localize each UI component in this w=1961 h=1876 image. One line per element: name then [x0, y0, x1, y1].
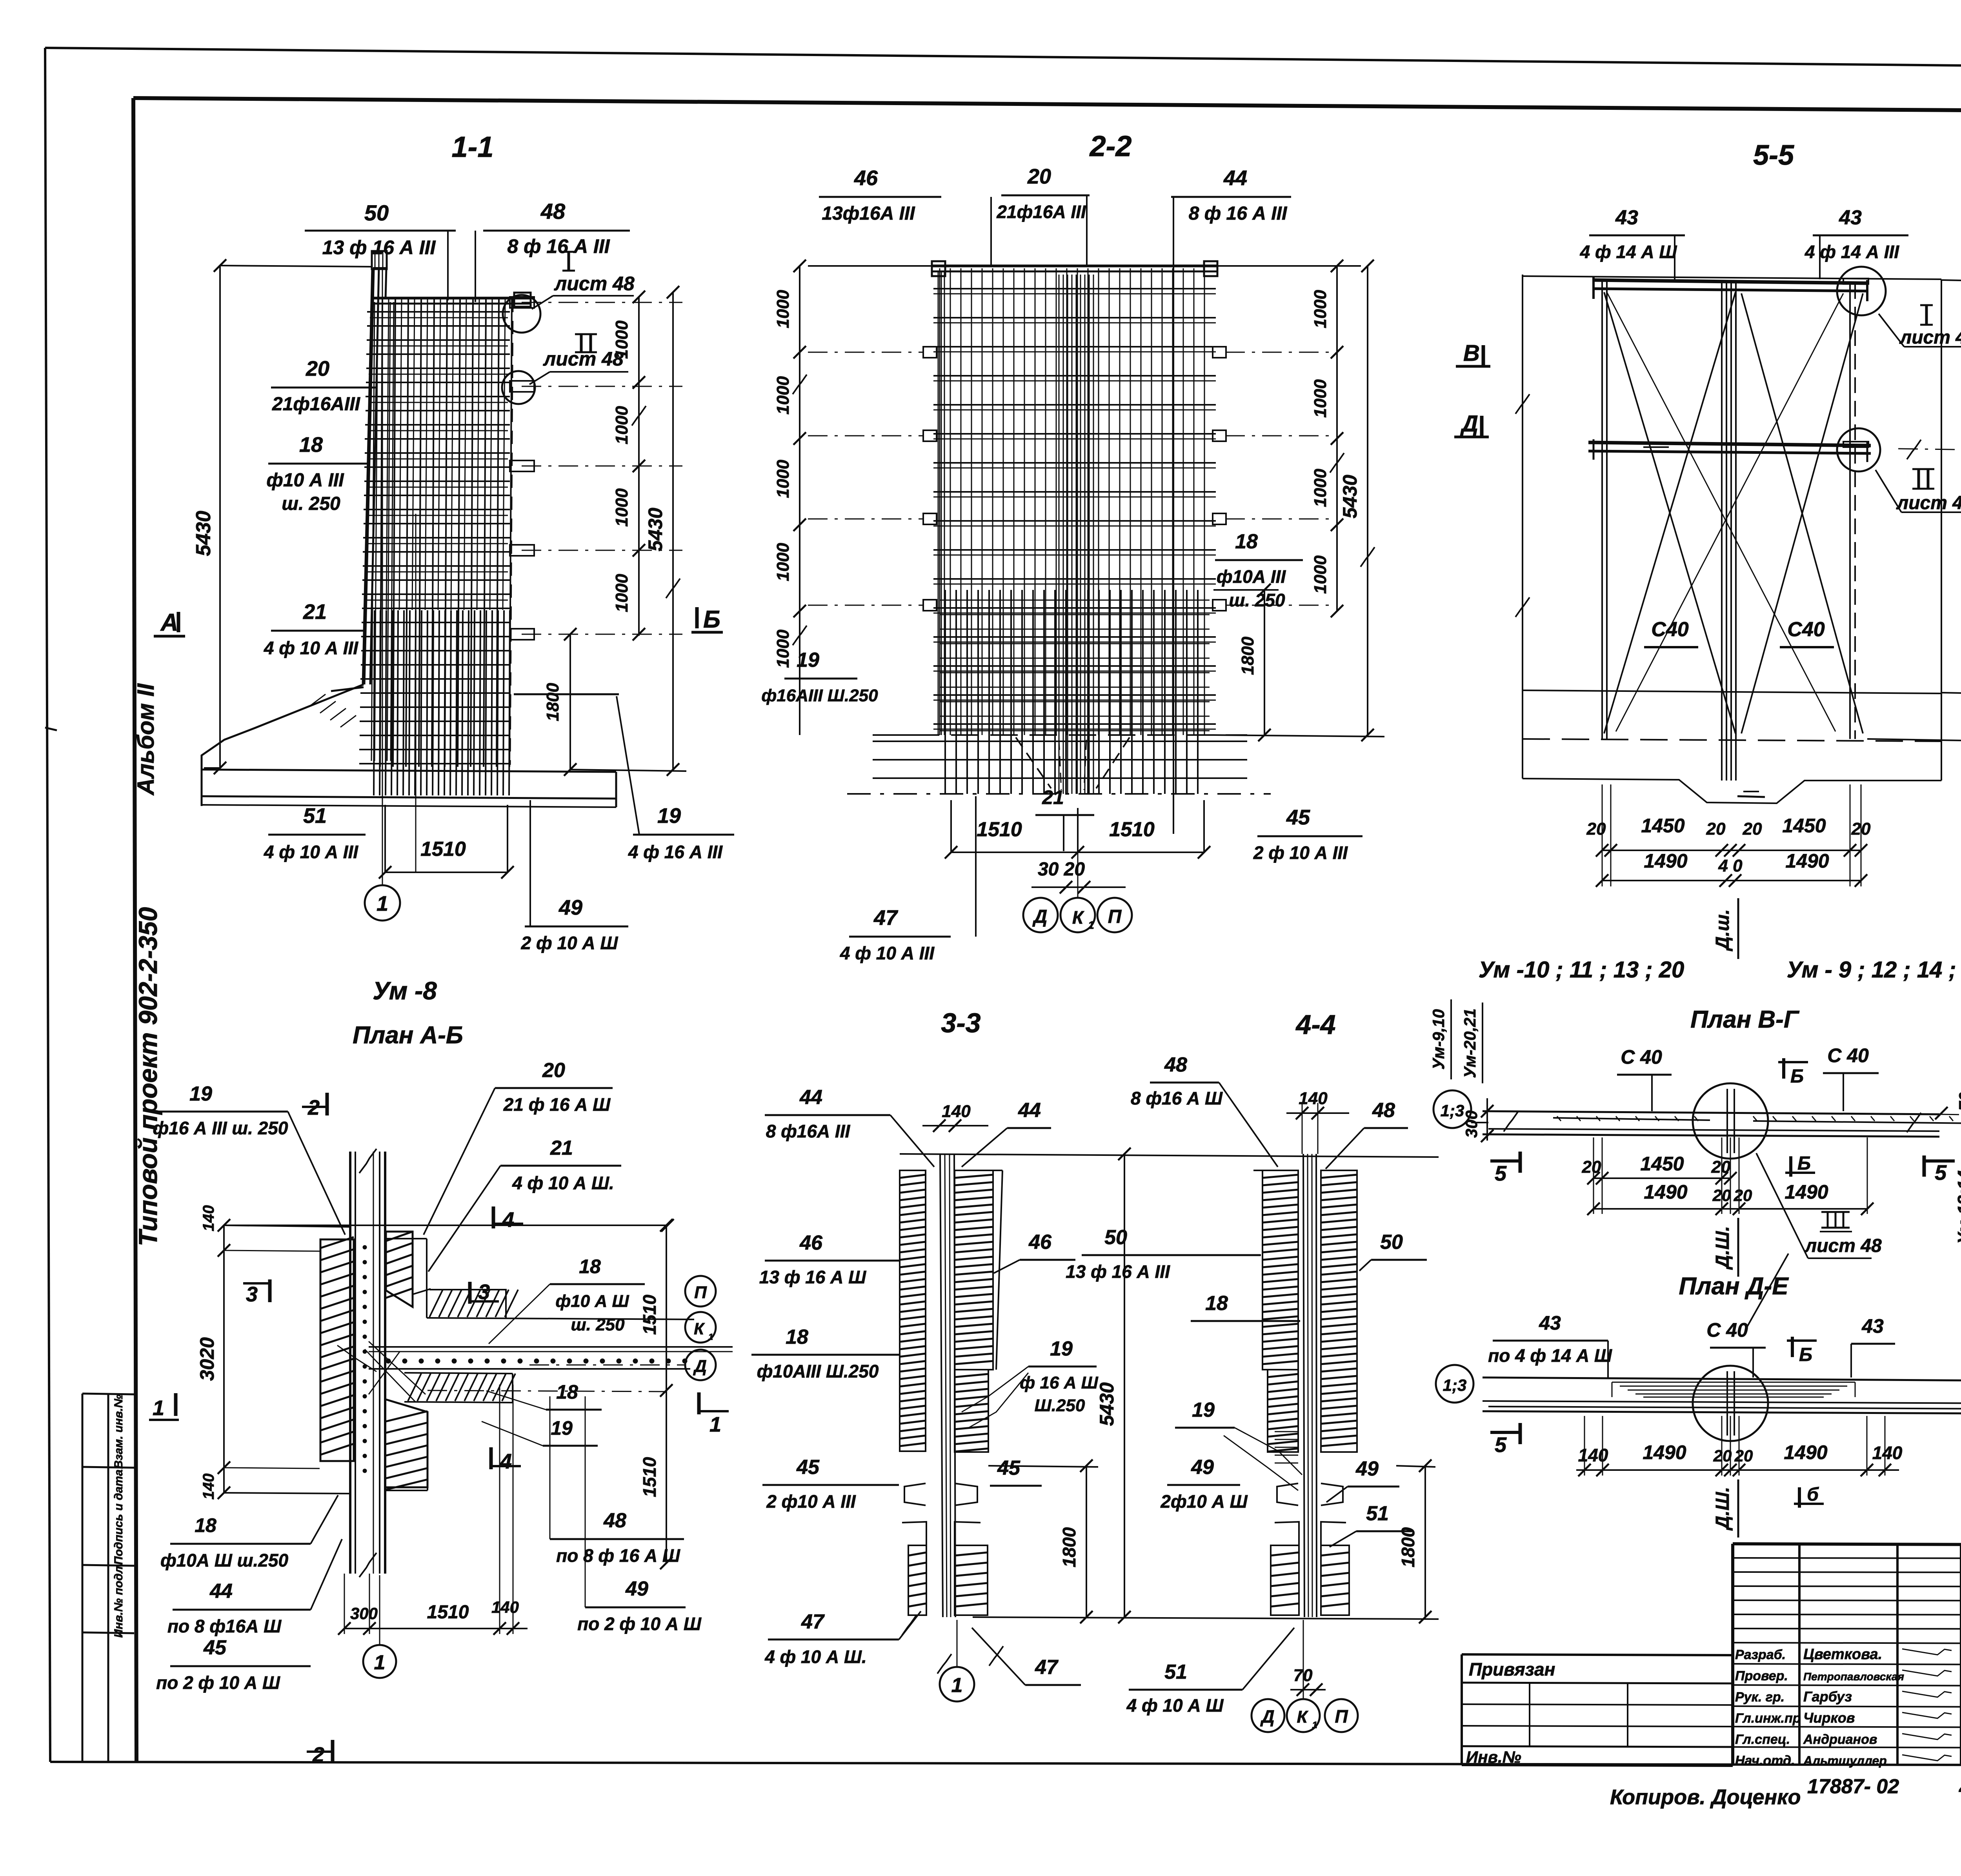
svg-text:1000: 1000 [773, 630, 793, 668]
svg-text:Инв.№: Инв.№ [1466, 1748, 1521, 1766]
svg-text:Подпись и дата: Подпись и дата [112, 1469, 125, 1565]
svg-text:43: 43 [1839, 206, 1862, 229]
svg-text:1: 1 [951, 1674, 963, 1697]
svg-text:Б: Б [703, 606, 720, 633]
svg-text:4 ф 10 А III: 4 ф 10 А III [264, 842, 358, 862]
svg-text:5430: 5430 [1096, 1382, 1118, 1426]
svg-text:4 ф 10 А Ш.: 4 ф 10 А Ш. [764, 1647, 867, 1667]
svg-text:1510: 1510 [639, 1457, 660, 1497]
svg-text:лист 48: лист 48 [554, 273, 635, 295]
svg-text:17887- 02: 17887- 02 [1807, 1775, 1899, 1798]
svg-text:47: 47 [801, 1610, 825, 1633]
svg-text:ш. 250: ш. 250 [282, 493, 340, 514]
svg-text:50: 50 [364, 200, 389, 225]
svg-text:1510: 1510 [427, 1602, 469, 1623]
svg-text:лист 48: лист 48 [1899, 327, 1961, 348]
svg-text:Петропавловская: Петропавловская [1803, 1670, 1904, 1683]
svg-text:13 ф 16 А III: 13 ф 16 А III [1066, 1261, 1170, 1282]
svg-text:48: 48 [1959, 1777, 1961, 1800]
svg-text:20: 20 [306, 357, 329, 380]
svg-text:5-5: 5-5 [1753, 140, 1794, 171]
svg-text:Гл.спец.: Гл.спец. [1735, 1732, 1790, 1747]
svg-text:140: 140 [942, 1102, 971, 1121]
svg-text:19: 19 [189, 1083, 212, 1105]
svg-text:С 40: С 40 [1621, 1046, 1662, 1068]
svg-text:48: 48 [540, 199, 566, 224]
svg-text:Ум-20,21: Ум-20,21 [1461, 1008, 1479, 1078]
svg-text:5430: 5430 [644, 508, 666, 551]
svg-text:Ш.250: Ш.250 [1035, 1396, 1085, 1415]
svg-text:1490: 1490 [1644, 850, 1687, 872]
svg-text:ф 16 А Ш: ф 16 А Ш [1020, 1373, 1098, 1392]
svg-text:Копиров. Доценко: Копиров. Доценко [1610, 1785, 1801, 1809]
svg-text:ф16АIII Ш.250: ф16АIII Ш.250 [761, 686, 878, 705]
svg-text:П: П [694, 1283, 707, 1302]
svg-text:К: К [694, 1319, 705, 1338]
svg-text:18: 18 [786, 1326, 808, 1348]
svg-text:300: 300 [1462, 1110, 1481, 1138]
svg-text:45: 45 [796, 1456, 820, 1479]
svg-text:Д: Д [1032, 906, 1048, 927]
svg-text:2: 2 [312, 1743, 324, 1767]
svg-text:2 ф 10 А III: 2 ф 10 А III [1253, 842, 1348, 863]
svg-text:47: 47 [873, 906, 899, 930]
svg-text:51: 51 [1164, 1661, 1187, 1683]
svg-text:20: 20 [1734, 1447, 1753, 1465]
svg-text:18: 18 [1205, 1292, 1228, 1315]
svg-text:2 ф 10 А Ш: 2 ф 10 А Ш [521, 933, 618, 953]
svg-text:по 2 ф 10 А Ш: по 2 ф 10 А Ш [156, 1672, 280, 1693]
svg-text:19: 19 [1050, 1337, 1073, 1360]
svg-text:1: 1 [1312, 1720, 1317, 1730]
svg-text:Б: Б [1799, 1345, 1812, 1365]
svg-text:49: 49 [558, 896, 582, 919]
svg-text:2 ф10 А III: 2 ф10 А III [766, 1491, 856, 1512]
svg-text:20: 20 [1743, 819, 1762, 839]
svg-text:Альтшуллер: Альтшуллер [1803, 1754, 1887, 1768]
svg-text:1490: 1490 [1785, 1181, 1828, 1203]
svg-text:Ум-9,10: Ум-9,10 [1429, 1009, 1448, 1070]
svg-text:44: 44 [209, 1580, 233, 1603]
svg-text:Разраб.: Разраб. [1735, 1647, 1786, 1662]
svg-text:Чирков: Чирков [1803, 1710, 1855, 1726]
svg-text:51: 51 [1366, 1502, 1389, 1525]
svg-text:ф16 А III ш. 250: ф16 А III ш. 250 [153, 1118, 288, 1138]
svg-text:Ум -10 ; 11 ; 13 ; 20: Ум -10 ; 11 ; 13 ; 20 [1479, 957, 1684, 983]
svg-text:50: 50 [1380, 1231, 1403, 1254]
svg-text:5: 5 [1495, 1162, 1507, 1185]
svg-text:С 40: С 40 [1706, 1319, 1748, 1341]
svg-text:ш. 250: ш. 250 [571, 1315, 625, 1334]
svg-text:8 ф 16 А III: 8 ф 16 А III [1189, 203, 1288, 224]
svg-text:49: 49 [1355, 1457, 1379, 1480]
svg-text:лист 48: лист 48 [543, 348, 624, 370]
svg-text:П: П [1108, 906, 1122, 927]
svg-text:18: 18 [299, 433, 323, 457]
svg-text:4 ф 10 А III: 4 ф 10 А III [840, 943, 935, 963]
svg-text:1490: 1490 [1784, 1441, 1827, 1463]
svg-text:4 ф 16 А III: 4 ф 16 А III [628, 842, 723, 862]
svg-text:1: 1 [1088, 919, 1094, 931]
svg-text:3020: 3020 [196, 1337, 218, 1381]
svg-text:43: 43 [1539, 1312, 1561, 1334]
svg-text:18: 18 [195, 1514, 216, 1536]
svg-text:1450: 1450 [1641, 815, 1684, 837]
svg-text:б: б [1807, 1484, 1819, 1505]
svg-text:ф10 А III: ф10 А III [266, 470, 344, 491]
svg-text:1490: 1490 [1644, 1181, 1687, 1203]
svg-text:1: 1 [377, 892, 388, 915]
svg-text:20: 20 [1027, 165, 1051, 188]
svg-text:140: 140 [1299, 1089, 1328, 1108]
svg-text:1: 1 [374, 1651, 386, 1674]
svg-text:70: 70 [1956, 1092, 1961, 1111]
svg-text:43: 43 [1615, 206, 1638, 229]
svg-text:21ф16А III: 21ф16А III [996, 202, 1086, 222]
svg-text:4 ф 14 А Ш: 4 ф 14 А Ш [1580, 242, 1677, 262]
svg-text:3: 3 [246, 1283, 258, 1306]
svg-text:1000: 1000 [612, 488, 631, 527]
svg-text:Привязан: Привязан [1469, 1659, 1555, 1679]
svg-text:1000: 1000 [612, 574, 631, 612]
svg-text:1490: 1490 [1643, 1441, 1686, 1463]
svg-text:1450: 1450 [1640, 1153, 1684, 1175]
svg-text:13 ф 16 А Ш: 13 ф 16 А Ш [759, 1267, 866, 1287]
svg-text:46: 46 [1028, 1231, 1052, 1254]
svg-text:44: 44 [1223, 166, 1247, 190]
svg-text:Б: Б [1797, 1153, 1811, 1174]
svg-text:5: 5 [1495, 1433, 1507, 1457]
svg-text:П: П [1335, 1706, 1348, 1727]
svg-text:1510: 1510 [977, 818, 1022, 841]
svg-text:В: В [1463, 340, 1480, 366]
svg-text:1000: 1000 [1311, 379, 1330, 418]
svg-text:К: К [1072, 907, 1084, 928]
svg-text:140: 140 [491, 1598, 519, 1616]
svg-text:А: А [160, 609, 178, 636]
svg-text:Ум - 9 ; 12 ; 14 ; 21: Ум - 9 ; 12 ; 14 ; 21 [1787, 957, 1961, 983]
svg-text:43: 43 [1861, 1315, 1884, 1337]
svg-text:4 ф 10 А Ш: 4 ф 10 А Ш [1126, 1695, 1224, 1716]
svg-text:Д: Д [1460, 411, 1478, 437]
svg-text:46: 46 [799, 1232, 823, 1254]
svg-text:8 ф 16 А III: 8 ф 16 А III [507, 235, 610, 257]
svg-text:44: 44 [799, 1086, 822, 1109]
svg-text:1800: 1800 [1059, 1527, 1079, 1567]
svg-text:лист 48: лист 48 [1804, 1236, 1882, 1256]
svg-text:45: 45 [997, 1457, 1021, 1479]
svg-text:4 0: 4 0 [1718, 856, 1743, 875]
svg-text:47: 47 [1035, 1656, 1059, 1679]
svg-text:48: 48 [1164, 1054, 1187, 1076]
svg-text:Андрианов: Андрианов [1803, 1732, 1877, 1747]
svg-text:1-1: 1-1 [452, 131, 494, 163]
svg-text:План А-Б: План А-Б [353, 1022, 463, 1049]
svg-text:48: 48 [1372, 1099, 1395, 1122]
svg-text:20: 20 [1711, 1157, 1731, 1177]
svg-text:1510: 1510 [420, 838, 466, 861]
svg-text:1;3: 1;3 [1443, 1376, 1467, 1394]
svg-text:по 4 ф 14 А Ш: по 4 ф 14 А Ш [1488, 1345, 1612, 1366]
svg-text:1000: 1000 [612, 320, 631, 359]
svg-text:1000: 1000 [773, 376, 793, 415]
svg-text:Ум -8: Ум -8 [373, 977, 437, 1005]
svg-text:Взам. инв.№: Взам. инв.№ [112, 1394, 125, 1469]
svg-text:1000: 1000 [773, 290, 793, 328]
svg-text:4: 4 [500, 1450, 512, 1473]
svg-text:по 2 ф 10 А Ш: по 2 ф 10 А Ш [577, 1614, 702, 1634]
svg-text:19: 19 [657, 804, 681, 828]
svg-text:300: 300 [350, 1604, 378, 1623]
svg-text:21: 21 [303, 600, 327, 624]
svg-text:1000: 1000 [1311, 555, 1330, 594]
svg-text:С 40: С 40 [1827, 1044, 1869, 1066]
svg-text:20: 20 [1734, 1186, 1752, 1205]
svg-text:1510: 1510 [639, 1294, 660, 1335]
svg-text:49: 49 [1191, 1456, 1214, 1479]
svg-text:ф10 А Ш: ф10 А Ш [555, 1292, 629, 1311]
svg-text:по 8 ф16А Ш: по 8 ф16А Ш [167, 1616, 282, 1636]
svg-text:Ум-13;14: Ум-13;14 [1954, 1170, 1961, 1244]
svg-text:ф10А III: ф10А III [1217, 566, 1286, 587]
svg-text:18: 18 [556, 1381, 578, 1403]
svg-text:С40: С40 [1787, 618, 1825, 641]
svg-text:51: 51 [303, 804, 327, 828]
svg-text:Д.Ш.: Д.Ш. [1712, 1487, 1733, 1531]
svg-text:140: 140 [1872, 1443, 1903, 1463]
svg-text:4 ф 10 А Ш.: 4 ф 10 А Ш. [512, 1173, 614, 1193]
svg-text:ф10А Ш ш.250: ф10А Ш ш.250 [160, 1550, 289, 1570]
svg-text:5: 5 [1935, 1161, 1947, 1185]
svg-text:Д.ш.: Д.ш. [1712, 909, 1733, 952]
svg-text:Д: Д [1260, 1706, 1274, 1727]
svg-text:19: 19 [797, 649, 819, 671]
svg-text:План Д-Е: План Д-Е [1679, 1273, 1789, 1300]
svg-text:лист 48: лист 48 [1896, 493, 1961, 513]
svg-text:18: 18 [579, 1256, 601, 1277]
svg-text:3-3: 3-3 [941, 1008, 980, 1038]
svg-text:140: 140 [200, 1474, 217, 1500]
svg-text:8 ф16А III: 8 ф16А III [766, 1121, 851, 1141]
svg-text:ф10АIII Ш.250: ф10АIII Ш.250 [757, 1361, 879, 1381]
svg-text:4 ф 14 А III: 4 ф 14 А III [1805, 242, 1899, 262]
svg-text:45: 45 [203, 1636, 227, 1659]
svg-text:1000: 1000 [1311, 469, 1330, 507]
svg-text:План В-Г: План В-Г [1690, 1006, 1800, 1033]
svg-text:Рук. гр.: Рук. гр. [1735, 1690, 1785, 1705]
svg-text:Цветкова.: Цветкова. [1803, 1646, 1882, 1663]
svg-text:13ф16А III: 13ф16А III [822, 203, 915, 224]
svg-text:8 ф16 А Ш: 8 ф16 А Ш [1131, 1088, 1223, 1108]
svg-text:21: 21 [1042, 786, 1064, 808]
svg-text:20: 20 [1706, 819, 1726, 839]
svg-text:1: 1 [709, 1413, 721, 1436]
svg-text:5430: 5430 [1339, 475, 1361, 518]
svg-text:50: 50 [1104, 1226, 1127, 1249]
svg-text:140: 140 [200, 1205, 217, 1232]
svg-text:49: 49 [625, 1578, 648, 1600]
svg-text:48: 48 [603, 1509, 626, 1532]
svg-text:2ф10 А Ш: 2ф10 А Ш [1160, 1491, 1248, 1512]
svg-text:4-4: 4-4 [1295, 1009, 1335, 1040]
svg-text:21: 21 [550, 1137, 573, 1159]
svg-text:С40: С40 [1651, 618, 1688, 641]
svg-text:4: 4 [502, 1208, 514, 1232]
svg-text:Альбом II: Альбом II [133, 683, 159, 796]
svg-text:21ф16АIII: 21ф16АIII [272, 394, 361, 415]
svg-text:46: 46 [854, 166, 878, 190]
svg-text:20: 20 [542, 1059, 565, 1082]
svg-text:45: 45 [1286, 806, 1310, 829]
svg-text:19: 19 [1192, 1399, 1215, 1421]
svg-text:21 ф 16 А Ш: 21 ф 16 А Ш [503, 1094, 611, 1115]
svg-text:18: 18 [1235, 530, 1258, 553]
svg-text:ш. 250: ш. 250 [1229, 590, 1285, 610]
svg-text:по 8 ф 16 А Ш: по 8 ф 16 А Ш [556, 1545, 680, 1566]
svg-text:К: К [1297, 1707, 1308, 1727]
svg-text:3: 3 [478, 1280, 490, 1304]
svg-text:1000: 1000 [773, 460, 793, 498]
svg-text:1510: 1510 [1109, 818, 1155, 841]
svg-text:1800: 1800 [1398, 1527, 1418, 1567]
svg-text:Нач.отд.: Нач.отд. [1735, 1753, 1795, 1768]
svg-text:4 ф 10 А III: 4 ф 10 А III [264, 638, 358, 658]
svg-text:Б: Б [1790, 1066, 1804, 1087]
svg-text:1800: 1800 [543, 683, 562, 721]
svg-text:Гл.инж.пр: Гл.инж.пр [1735, 1711, 1801, 1726]
svg-text:20: 20 [1586, 819, 1606, 839]
svg-text:2-2: 2-2 [1089, 130, 1132, 162]
svg-text:Д: Д [693, 1357, 707, 1376]
svg-text:19: 19 [551, 1417, 573, 1439]
svg-text:1000: 1000 [773, 543, 793, 581]
svg-text:1490: 1490 [1785, 850, 1829, 872]
svg-text:Провер.: Провер. [1735, 1669, 1788, 1683]
svg-text:1: 1 [708, 1332, 713, 1342]
svg-text:1;3: 1;3 [1441, 1101, 1464, 1120]
svg-text:Инв.№ подл.: Инв.№ подл. [112, 1563, 125, 1638]
svg-text:140: 140 [1578, 1445, 1608, 1465]
svg-text:Типовой проект 902-2-350: Типовой проект 902-2-350 [133, 907, 162, 1246]
svg-text:1000: 1000 [1311, 290, 1330, 328]
svg-text:Гарбуз: Гарбуз [1803, 1689, 1852, 1705]
svg-text:44: 44 [1018, 1099, 1041, 1122]
svg-text:1000: 1000 [612, 406, 631, 444]
svg-text:1: 1 [153, 1396, 164, 1420]
svg-text:1800: 1800 [1238, 637, 1257, 675]
svg-text:Д.Ш.: Д.Ш. [1712, 1226, 1733, 1270]
svg-text:1450: 1450 [1782, 815, 1826, 837]
svg-text:5430: 5430 [192, 511, 215, 556]
